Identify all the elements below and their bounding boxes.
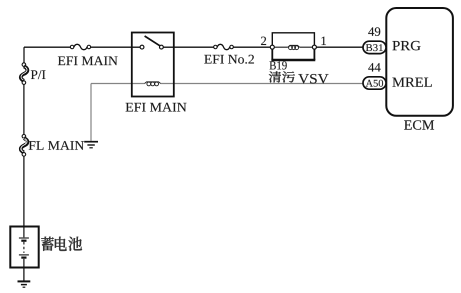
label: 蓄电池 (battery)	[41, 237, 82, 251]
wire: relay coil to ECM pin A50 (MREL net)	[161, 83, 363, 85]
relay EFI MAIN (box)	[132, 33, 174, 97]
label: MREL	[392, 78, 431, 87]
label: 清污 VSV	[269, 71, 329, 83]
wire: fuse EFI MAIN to relay	[91, 46, 132, 48]
label: B19 (connector)	[270, 61, 287, 69]
label: ECM	[404, 120, 434, 129]
relay coil	[145, 82, 161, 86]
battery 蓄电池 (box)	[10, 227, 38, 268]
label: EFI MAIN (fuse value)	[58, 56, 118, 65]
fuse EFI MAIN	[70, 44, 90, 49]
ground (battery)	[18, 281, 31, 287]
wire: FL MAIN to battery positive	[23, 156, 25, 226]
label: PRG	[392, 41, 420, 50]
solenoid valve B19 purge VSV (housing)	[271, 33, 315, 60]
wire: fuse EFI No.2 to VSV pin 2	[233, 46, 270, 48]
wire: P/I to FL MAIN	[23, 84, 25, 134]
ground (relay coil)	[84, 142, 98, 148]
label: EFI No.2 (fuse value)	[204, 55, 254, 64]
pin number 1	[322, 37, 326, 45]
fuse EFI No.2	[214, 44, 234, 49]
label: FL MAIN	[29, 141, 84, 150]
wire: node A down to fusible link P/I	[23, 47, 25, 63]
wire: relay to fuse EFI No.2	[174, 46, 214, 48]
pin number 44	[368, 63, 380, 71]
wire: node A (top-left corner) to fuse EFI MAIN	[24, 46, 71, 48]
VSV terminal pin 2	[270, 45, 274, 49]
wire: relay coil left lead to ground drop	[91, 84, 145, 141]
label: EFI MAIN (relay)	[126, 103, 187, 112]
fusible link FL MAIN	[21, 135, 28, 157]
fusible link P/I	[21, 63, 28, 85]
ECM (box)	[386, 8, 453, 116]
wire: VSV pin 1 to ECM pin B31 (PRG net)	[316, 46, 363, 48]
ECM pin B31 (oval)	[363, 41, 386, 53]
pin number 49	[368, 27, 380, 36]
wire: battery negative to ground	[23, 268, 25, 281]
VSV terminal pin 1	[312, 45, 316, 49]
battery cells	[19, 227, 29, 268]
relay switch contacts and blade	[132, 36, 174, 49]
pin number 2	[261, 37, 266, 45]
ECM pin A50 (oval)	[363, 77, 386, 89]
label: P/I	[31, 70, 46, 79]
VSV internal wire and solenoid coil	[272, 45, 314, 49]
